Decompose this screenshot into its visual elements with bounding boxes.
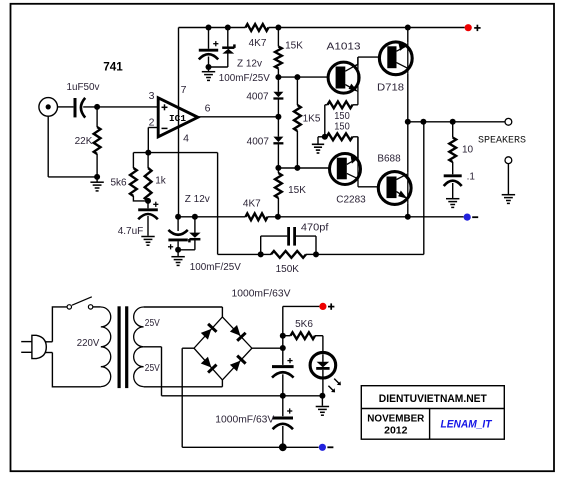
svg-text:1000mF/63V: 1000mF/63V xyxy=(232,288,291,299)
svg-text:150: 150 xyxy=(334,122,350,133)
svg-text:22K: 22K xyxy=(75,136,93,147)
svg-text:7: 7 xyxy=(181,84,187,96)
svg-text:150K: 150K xyxy=(276,264,300,275)
svg-text:D718: D718 xyxy=(377,83,404,94)
svg-text:C2283: C2283 xyxy=(336,195,366,206)
svg-text:100mF/25V: 100mF/25V xyxy=(190,262,241,273)
svg-text:Z 12v: Z 12v xyxy=(185,194,210,205)
svg-text:4K7: 4K7 xyxy=(249,38,267,49)
svg-text:25V: 25V xyxy=(145,318,160,329)
svg-text:5k6: 5k6 xyxy=(110,178,127,189)
svg-text:1k: 1k xyxy=(155,176,167,187)
svg-text:4K7: 4K7 xyxy=(243,199,261,210)
svg-text:10: 10 xyxy=(462,145,474,156)
svg-text:1000mF/63V: 1000mF/63V xyxy=(215,415,274,426)
svg-text:LENAM_IT: LENAM_IT xyxy=(441,419,493,431)
svg-text:15K: 15K xyxy=(288,185,306,196)
svg-text:4007: 4007 xyxy=(247,137,270,148)
svg-text:NOVEMBER: NOVEMBER xyxy=(367,413,424,425)
svg-text:1K5: 1K5 xyxy=(303,114,321,125)
svg-text:470pf: 470pf xyxy=(301,223,329,234)
svg-text:15K: 15K xyxy=(285,41,303,52)
svg-text:IC1: IC1 xyxy=(169,113,186,124)
svg-text:.1: .1 xyxy=(467,172,476,183)
svg-text:SPEAKERS: SPEAKERS xyxy=(478,135,526,147)
svg-text:4: 4 xyxy=(183,133,189,145)
svg-text:DIENTUVIETNAM.NET: DIENTUVIETNAM.NET xyxy=(379,393,487,405)
svg-text:A1013: A1013 xyxy=(327,42,362,53)
svg-text:220V: 220V xyxy=(77,338,100,349)
svg-text:2012: 2012 xyxy=(384,425,408,437)
svg-text:100mF/25V: 100mF/25V xyxy=(219,73,270,84)
svg-text:5K6: 5K6 xyxy=(295,319,313,330)
svg-text:150: 150 xyxy=(334,111,350,122)
svg-text:2: 2 xyxy=(149,117,155,129)
svg-text:25V: 25V xyxy=(145,363,160,374)
svg-text:4007: 4007 xyxy=(246,92,269,103)
svg-text:3: 3 xyxy=(149,90,155,102)
svg-text:741: 741 xyxy=(103,60,123,74)
svg-text:6: 6 xyxy=(205,103,211,115)
svg-text:B688: B688 xyxy=(377,153,401,164)
svg-text:1uF50v: 1uF50v xyxy=(67,82,100,93)
svg-text:Z 12v: Z 12v xyxy=(237,59,262,70)
svg-text:4.7uF: 4.7uF xyxy=(118,226,144,237)
